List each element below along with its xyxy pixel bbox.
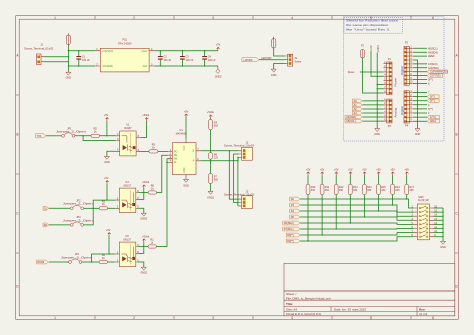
wire row D2 to SW1 — [300, 199, 414, 208]
wire label to JP4 — [49, 261, 69, 263]
svg-text:4: 4 — [291, 16, 293, 20]
capacitor C2 — [158, 50, 172, 67]
svg-text:GND2: GND2 — [140, 272, 148, 275]
svg-text:GND: GND — [415, 133, 421, 136]
resistor R7 — [209, 174, 219, 184]
wire row D3 to SW1 — [300, 205, 414, 212]
svg-text:GND: GND — [66, 77, 72, 80]
resistor R14 330 — [363, 175, 365, 184]
optocoupler U1 6N137 — [116, 124, 141, 156]
resistor R12 330 — [335, 175, 337, 184]
global label 0(Rx) — [427, 120, 440, 123]
fuse F3 — [272, 37, 276, 48]
column numbers — [54, 16, 434, 320]
svg-text:RE: RE — [174, 155, 178, 157]
svg-text:2: 2 — [133, 16, 135, 20]
wire R10 drop to row — [307, 195, 309, 242]
IC U4 MAX481E — [168, 129, 200, 179]
header P1 (power) — [384, 58, 393, 95]
wire JP3 to node — [84, 208, 94, 225]
global label D9(**) — [286, 239, 300, 243]
junction node — [91, 261, 92, 262]
svg-text:2: 2 — [133, 316, 135, 320]
ground GND2 (U3) — [140, 213, 148, 221]
wire row D6(SDA) to SW1 — [300, 223, 414, 224]
svg-text:D6(SDA): D6(SDA) — [284, 222, 294, 225]
svg-text:+5V: +5V — [306, 168, 311, 171]
resistor R13 330 — [349, 175, 351, 184]
svg-text:DE: DE — [174, 159, 178, 161]
ground GND (U4) — [183, 179, 189, 188]
svg-text:+5V: +5V — [106, 229, 111, 232]
svg-text:+5Vok: +5Vok — [142, 181, 150, 184]
power +5Vok (U5) — [138, 235, 150, 253]
svg-text:560: 560 — [214, 179, 219, 182]
wire vertical main node — [67, 45, 69, 72]
global label 1(Tx) — [427, 115, 440, 118]
wire R8 to U4 pin2 (vertical riser) — [157, 155, 169, 192]
wire U1 out to R5 — [139, 150, 149, 152]
wire F3 to J4 pin1 — [274, 48, 285, 56]
svg-text:GND: GND — [183, 184, 189, 187]
wire B to J2 pin1 — [200, 150, 238, 152]
svg-text:Size: A4: Size: A4 — [286, 307, 297, 311]
svg-text:GND2: GND2 — [140, 218, 148, 221]
wire A to corner — [200, 160, 238, 162]
wire row D8(**) to SW1 — [300, 233, 414, 235]
wire R2 to U1 pin2 — [99, 135, 115, 137]
svg-text:330: 330 — [353, 189, 358, 192]
svg-text:6: 6 — [432, 316, 434, 320]
wire R11 drop to row — [321, 195, 323, 236]
svg-text:DI: DI — [174, 162, 177, 164]
power GND2 — [215, 66, 223, 79]
svg-text:5: 5 — [370, 316, 372, 320]
wire U5 gnd2 — [138, 262, 144, 267]
svg-text:330: 330 — [381, 189, 386, 192]
jumper JP3 — [63, 216, 94, 226]
connector J4 screw terminal 01x03 — [285, 54, 302, 66]
wire J4 pin3 to ground — [274, 63, 285, 69]
global label 11(PWM/MOSI) — [427, 70, 448, 73]
power +5V (U3 left) — [104, 177, 109, 201]
svg-text:3(**): 3(**) — [428, 108, 433, 111]
wire J3 pin3 — [237, 205, 240, 207]
svg-text:+5V: +5V — [362, 168, 367, 171]
wire R4 to R6 — [210, 130, 212, 153]
svg-text:4: 4 — [291, 316, 293, 320]
optocoupler U3 6N137 — [115, 181, 139, 213]
svg-text:100 nF: 100 nF — [163, 59, 171, 62]
row ticks right — [455, 95, 459, 253]
svg-text:Rev:: Rev: — [419, 307, 426, 311]
global label 10(**/SS) — [427, 74, 443, 77]
global label D7(SCL) — [283, 227, 300, 231]
wire R13 drop to row — [349, 195, 351, 224]
wires P2 right — [413, 48, 427, 83]
wire U3 out to R8 — [138, 192, 148, 194]
power +5V (U5 left) — [106, 229, 111, 255]
svg-text:File: DMX_to_Bengiovi kicad_sc: File: DMX_to_Bengiovi kicad_sch — [286, 296, 331, 300]
wire R5 to U4 pin1 — [158, 150, 168, 152]
wire label to JP1 — [46, 135, 61, 137]
wire node up to U5 pin upper — [92, 254, 116, 262]
wire R3 to U3 — [108, 207, 116, 209]
resistor R17 330 — [406, 175, 408, 184]
svg-text:+5Vok: +5Vok — [207, 111, 215, 114]
junction node — [93, 208, 94, 209]
power module PS1 TRA 2-0509 — [95, 39, 154, 72]
junction node — [82, 135, 83, 136]
power +5V (U1 left) — [104, 114, 109, 136]
ground GND (left rail) — [374, 129, 380, 136]
wire row D4 to SW1 — [300, 211, 414, 216]
wire +5V to P1 pin4 — [371, 51, 384, 77]
global label D6(SDA) — [283, 221, 300, 225]
svg-text:Screw_Terminal_01x02: Screw_Terminal_01x02 — [24, 47, 54, 50]
svg-text:330: 330 — [409, 189, 414, 192]
wire R1 to U4 pin3 (long riser) — [156, 159, 173, 247]
wire row D7(SCL) to SW1 — [300, 228, 414, 231]
row ticks left — [16, 95, 20, 253]
svg-text:3: 3 — [212, 316, 214, 320]
svg-text:6: 6 — [432, 16, 434, 20]
wire R15 drop to row — [378, 195, 380, 212]
wire P2 pin4 gnd down — [413, 60, 418, 129]
global label D3 — [290, 203, 300, 207]
global label RXD0 — [37, 260, 49, 264]
resistor R15 330 — [378, 175, 380, 184]
svg-text:VCC: VCC — [184, 145, 186, 150]
jumper JP1 — [56, 127, 87, 137]
text note box — [344, 18, 402, 34]
global label 5(**) — [427, 99, 439, 102]
connector J3 Screw_Terminal_01x03 — [224, 190, 255, 208]
svg-text:330: 330 — [395, 189, 400, 192]
resistor R9 — [99, 254, 107, 264]
wire A riser to J2 pin3 — [237, 157, 240, 160]
svg-text:Jumper_2_Open: Jumper_2_Open — [63, 203, 94, 206]
svg-text:330: 330 — [367, 189, 372, 192]
branch to P1 pin6 — [377, 84, 383, 86]
wire U3 gnd2 — [138, 208, 144, 213]
resistor R16 330 — [392, 175, 394, 184]
svg-text:+5V: +5V — [404, 168, 409, 171]
svg-text:Power: Power — [393, 78, 397, 87]
svg-text:120: 120 — [214, 157, 219, 160]
wires A0-A5 to P3 — [362, 101, 383, 121]
svg-text:+5V: +5V — [320, 168, 325, 171]
wire U1 gnd pin left — [107, 151, 116, 156]
junction DI tie — [166, 162, 167, 163]
wire R16 drop to row — [392, 195, 394, 206]
svg-text:+12VDC: +12VDC — [243, 59, 253, 62]
svg-text:PS1: PS1 — [122, 39, 127, 42]
svg-text:TRA 2-0509: TRA 2-0509 — [118, 42, 132, 45]
svg-text:Jumper_2_Open: Jumper_2_Open — [56, 131, 87, 134]
svg-text:0(Rx): 0(Rx) — [430, 120, 436, 123]
svg-text:9(**): 9(**) — [428, 79, 433, 82]
resistor R8 — [148, 185, 156, 195]
global label D2 — [290, 197, 300, 201]
jumper JP4 — [61, 253, 92, 263]
global label TX0 — [36, 134, 47, 138]
svg-text:11(PWM/MOSI): 11(PWM/MOSI) — [430, 71, 448, 74]
header P4 (digital low) — [404, 90, 413, 128]
branch to P1 pin7 — [377, 88, 383, 90]
power +5Vok (U1 right) — [140, 114, 150, 138]
svg-text:D8(**): D8(**) — [287, 234, 294, 237]
svg-text:Title:: Title: — [286, 302, 293, 306]
svg-text:+5V: +5V — [376, 168, 381, 171]
junction A corner — [237, 160, 238, 161]
wire F2 to P1 pin8 — [363, 58, 384, 93]
column ticks bottom — [95, 316, 411, 320]
svg-text:GND: GND — [374, 133, 380, 136]
capacitor C1 — [76, 50, 90, 67]
wire R12 drop to row — [335, 195, 337, 230]
global label D4 — [290, 209, 300, 213]
svg-text:GND: GND — [184, 167, 186, 172]
svg-text:Jumper_2_Open: Jumper_2_Open — [61, 256, 92, 259]
svg-text:+Vin(VDC): +Vin(VDC) — [102, 51, 113, 53]
wire R7 to GND2 — [210, 184, 212, 192]
svg-text:-Vout: -Vout — [142, 65, 148, 68]
global label D0 — [43, 223, 49, 227]
svg-text:Digital: Digital — [400, 66, 404, 75]
svg-text:+5V: +5V — [334, 168, 339, 171]
svg-text:100 nF: 100 nF — [208, 59, 216, 62]
svg-text:+5V: +5V — [184, 110, 189, 113]
ground GND2 (U5) — [140, 267, 148, 275]
global label D8(**) — [286, 233, 300, 237]
svg-text:6N137: 6N137 — [124, 127, 132, 130]
svg-text:+5V: +5V — [348, 168, 353, 171]
wire row D9(**) to SW1 — [300, 237, 414, 241]
svg-text:6N137: 6N137 — [124, 238, 132, 241]
column ticks top — [95, 16, 411, 20]
svg-text:+Vout: +Vout — [141, 50, 147, 53]
wire GND1 rail down — [376, 53, 378, 129]
ground GND — [66, 72, 72, 80]
svg-text:TX0: TX0 — [37, 135, 42, 138]
svg-text:100 nF: 100 nF — [82, 59, 90, 62]
svg-text:Screw: Screw — [294, 61, 301, 64]
wire U5 out to R1 — [138, 246, 148, 248]
svg-text:1(Tx): 1(Tx) — [430, 116, 436, 119]
vertical tie wires J2-J3 — [229, 151, 238, 199]
svg-text:GND2: GND2 — [215, 76, 223, 79]
header P2 (digital hi) — [404, 42, 413, 86]
fuse F1 — [66, 33, 70, 44]
svg-text:+5Vok: +5Vok — [142, 114, 150, 117]
wires SW1 right to gnd bus — [433, 208, 443, 241]
wire R6 to R7 — [210, 159, 212, 173]
wire PS1 out top rail — [154, 50, 218, 52]
svg-text:+5V: +5V — [104, 177, 109, 180]
svg-text:the same pin disposition: the same pin disposition — [346, 23, 388, 27]
svg-text:+5Vok: +5Vok — [142, 235, 150, 238]
ground GND2 (chain) — [207, 191, 215, 199]
wire Reset to P1 pin3 — [360, 71, 384, 73]
svg-text:5(**): 5(**) — [430, 100, 435, 103]
wire PS1 out bottom rail — [154, 65, 218, 67]
capacitor C4 — [202, 50, 216, 67]
svg-text:1: 1 — [54, 16, 56, 20]
wire R17 drop to row — [406, 195, 408, 200]
resistor R6 — [209, 153, 219, 160]
resistor R2 — [91, 127, 99, 137]
svg-text:MAX481E: MAX481E — [176, 132, 187, 135]
wire node to PS1 pin1 — [68, 50, 95, 52]
svg-text:A4(SDA): A4(SDA) — [428, 51, 438, 54]
svg-text:A5(SCL): A5(SCL) — [428, 47, 438, 50]
svg-text:B: B — [16, 133, 18, 137]
wire branch to pin3 — [83, 136, 116, 141]
svg-text:Id: 1/1: Id: 1/1 — [419, 312, 428, 316]
svg-text:Reset: Reset — [348, 71, 355, 74]
global label 6(**) — [427, 95, 439, 98]
wire label to J4 pin2 — [259, 59, 285, 61]
svg-text:10(**/SS): 10(**/SS) — [430, 75, 441, 78]
shield section dashed outline — [344, 17, 445, 141]
svg-text:Sw_DIP_x08: Sw_DIP_x08 — [418, 199, 429, 202]
svg-text:6N137: 6N137 — [124, 184, 132, 187]
svg-text:KiCad E.D.A. kicad (6.0.2): KiCad E.D.A. kicad (6.0.2) — [286, 312, 321, 316]
header P3 (analog) — [384, 98, 393, 128]
svg-text:+5V: +5V — [390, 168, 395, 171]
svg-text:GND2: GND2 — [207, 197, 215, 200]
svg-text:13(SCK): 13(SCK) — [428, 63, 438, 66]
optocoupler U5 6N137 — [115, 235, 139, 267]
svg-text:Analog: Analog — [393, 108, 397, 118]
resistor R4 — [209, 120, 219, 130]
wire label to JP2 — [49, 207, 70, 209]
svg-text:GND: GND — [104, 161, 110, 164]
connector J2 Screw_Terminal_01x03 — [224, 141, 255, 160]
wire node to PS1 pin2 — [68, 65, 95, 67]
wire JP4 to R9 — [82, 261, 99, 263]
wire R9 to U5 — [108, 261, 116, 263]
connector J1 Screw_Terminal_01x02 — [24, 44, 54, 65]
svg-text:D9(**): D9(**) — [287, 240, 294, 243]
power +5Vok (U3) — [138, 181, 150, 199]
svg-text:RXD0: RXD0 — [38, 261, 45, 264]
svg-text:GND: GND — [271, 74, 277, 77]
svg-text:Digital: Digital — [400, 106, 404, 115]
global label D5 — [290, 215, 300, 219]
wire row D5 to SW1 — [300, 217, 414, 220]
svg-text:100 nF: 100 nF — [186, 59, 194, 62]
svg-text:+5V: +5V — [216, 44, 221, 47]
title block — [284, 291, 455, 316]
resistor R11 330 — [321, 175, 323, 184]
svg-text:6(**): 6(**) — [430, 96, 435, 99]
junction dots — [68, 56, 69, 57]
global label D1 — [43, 206, 49, 210]
ground GND (J4) — [271, 69, 277, 77]
svg-text:330: 330 — [311, 189, 316, 192]
resistor R10 330 — [307, 175, 309, 184]
svg-text:A5(SCL): A5(SCL) — [346, 120, 356, 123]
wire JP2 to R3 — [84, 207, 100, 209]
ground GND (U1) — [104, 156, 110, 164]
row letters — [16, 54, 458, 289]
svg-text:Date: lun. 30 mars 2015: Date: lun. 30 mars 2015 — [334, 307, 366, 311]
svg-text:560: 560 — [214, 125, 219, 128]
title block comment box — [284, 263, 455, 291]
ground GND (right rail) — [415, 129, 421, 136]
wire label to JP3 — [49, 224, 70, 226]
svg-text:330: 330 — [339, 189, 344, 192]
svg-text:like "Uno" board Rev 3.: like "Uno" board Rev 3. — [346, 28, 390, 32]
capacitor C3 — [180, 50, 194, 67]
switch SW1 Sw_DIP_x08 — [412, 196, 438, 240]
svg-text:AREF: AREF — [428, 55, 435, 58]
resistor R1 — [148, 239, 156, 249]
svg-text:D7(SCL): D7(SCL) — [284, 228, 294, 231]
power +5V — [216, 44, 221, 51]
power +5V (U4) — [184, 110, 189, 138]
global label +12VDC — [242, 58, 259, 62]
svg-text:12(MISO): 12(MISO) — [428, 67, 439, 70]
resistor R3 — [99, 200, 107, 210]
wire node up to U3 pin upper — [93, 200, 115, 208]
svg-text:+5V: +5V — [104, 114, 109, 117]
svg-text:1: 1 — [54, 316, 56, 320]
wire JP1 to R2 — [75, 135, 91, 137]
ground GND (SW1) — [441, 241, 446, 244]
svg-text:GND1: GND1 — [377, 45, 380, 53]
svg-text:GND: GND — [440, 246, 446, 249]
svg-text:Shield for Arduino that uses: Shield for Arduino that uses — [346, 19, 399, 23]
svg-text:B: B — [456, 133, 458, 137]
jumper JP2 — [63, 199, 94, 209]
power +5Vok (chain) — [207, 111, 215, 119]
wire J1 to node — [44, 57, 69, 62]
wires P4 right — [413, 93, 427, 122]
svg-text:330: 330 — [325, 189, 330, 192]
fuse F2 — [360, 44, 364, 58]
svg-text:-Vin(GND): -Vin(GND) — [102, 66, 113, 68]
svg-text:RO: RO — [174, 151, 178, 153]
svg-text:+5V: +5V — [370, 45, 373, 50]
svg-text:A4(SDA): A4(SDA) — [346, 116, 356, 119]
svg-text:3: 3 — [212, 16, 214, 20]
global labels A0-A3 — [345, 99, 362, 123]
resistor R5 — [149, 143, 158, 153]
wire R14 drop to row — [363, 195, 365, 218]
